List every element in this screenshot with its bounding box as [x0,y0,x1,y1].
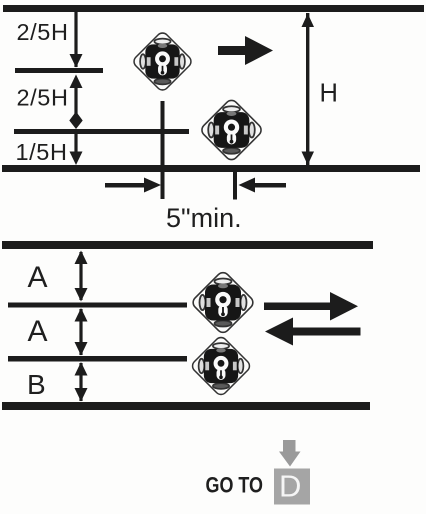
down arrowhead at first lane line [70,54,83,68]
dimension B shaft [79,363,82,401]
dimension shaft segment 2 [74,85,77,115]
dimension A2 up arrowhead [75,308,88,322]
dimension A2 shaft [79,309,82,355]
diamond double arrowhead above middle line [69,112,82,130]
down arrowhead at lower road edge [70,152,83,166]
two-way arrow pointing left [265,318,361,346]
left dimension shaft (top section) [74,12,77,67]
dimension A1 shaft [79,252,82,300]
top section middle lane line (2/5H level 2) [14,129,189,134]
H dimension shaft [306,13,309,165]
marker M3 [190,270,255,335]
svg-text:2/5H: 2/5H [17,19,69,45]
gray go-to box D [274,469,310,505]
svg-text:1/5H: 1/5H [16,139,68,165]
svg-text:H: H [320,80,338,108]
spacing tick at marker M2 [233,170,237,200]
bottom section upper road edge line [2,241,373,249]
bottom section lower road edge line [2,402,370,410]
marker M1 [132,31,194,93]
two-way arrow pointing right [264,292,358,321]
top section lower road edge line [2,165,420,172]
dimension B down arrowhead [75,388,88,402]
spacing arrow pointing left at tick 2 [239,178,287,193]
top section short lane line (2/5H level 1) [15,68,103,73]
bottom section lane line 1 [8,303,187,308]
dimension B up arrowhead [75,362,88,376]
svg-text:5"min.: 5"min. [166,203,242,233]
H dimension up arrowhead [302,14,315,28]
dimension A1 down arrowhead [75,288,88,302]
spacing arrow pointing right at tick 1 [105,178,161,193]
top section upper road edge line [3,5,424,12]
marker M4 [190,335,252,397]
svg-text:D: D [279,469,301,504]
svg-text:A: A [28,315,48,348]
svg-text:A: A [28,261,48,294]
dimension A2 down arrowhead [75,342,88,356]
bottom section lane line 2 [8,356,187,362]
up arrowhead below first lane line [70,75,83,89]
svg-text:B: B [27,369,46,400]
H dimension down arrowhead [302,152,315,166]
svg-text:2/5H: 2/5H [17,85,69,111]
dimension shaft segment 3 [74,134,77,154]
marker M1 stem tick [161,101,165,199]
travel direction arrow (top section) [218,36,273,65]
dimension A1 up arrowhead [75,251,88,265]
svg-text:GO TO: GO TO [206,473,264,498]
marker M2 [199,98,263,162]
gray go-to down arrow [279,440,301,467]
